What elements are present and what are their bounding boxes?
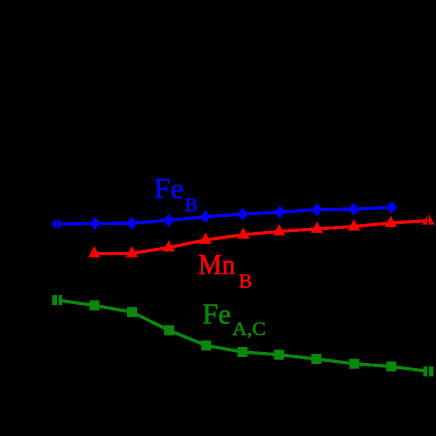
marker Fe_A,C square 2 [90,300,100,310]
marker Fe_B diamond 2 [90,217,101,230]
marker Fe_B diamond 3 [126,217,137,230]
marker Fe_B diamond 7 [274,206,285,219]
error bar Mn_B point 10 (black) [427,212,429,225]
svg-text:B: B [239,271,252,293]
marker Fe_A,C square 3 [127,307,137,317]
marker Fe_A,C square 4 [164,325,174,335]
marker Fe_A,C square 6 [238,347,248,357]
svg-text:A,C: A,C [232,319,265,340]
svg-text:Mn: Mn [198,250,235,281]
marker Fe_A,C square 9 [349,359,359,369]
error bar Fe_A,C point 1 (black) [57,295,59,307]
error bar Fe_B point 1 (black) [56,217,57,230]
svg-text:B: B [185,195,198,216]
error bar Fe_A,C point 11 (black) [427,366,429,378]
marker Fe_B diamond 10 [386,201,397,214]
marker Fe_B diamond 8 [312,203,323,216]
marker Fe_A,C square 7 [274,350,284,360]
marker Fe_A,C square 11 [423,366,433,376]
marker Mn_B triangle 9 [385,216,397,227]
series Fe_B line (blue) [57,207,392,224]
svg-text:Fe: Fe [202,300,231,331]
marker Fe_B diamond 1 [52,218,63,231]
marker Fe_A,C square 10 [386,362,396,372]
marker Mn_B triangle 8 [348,219,360,230]
marker Mn_B triangle 10 [422,213,434,224]
series Fe_A,C line (green) [57,300,428,371]
marker Fe_B diamond 4 [163,214,174,227]
marker Mn_B triangle 4 [199,233,211,244]
marker Fe_A,C square 5 [201,341,211,351]
marker Mn_B triangle 1 [88,246,100,257]
svg-text:Fe: Fe [154,174,184,205]
marker Fe_B diamond 9 [348,203,359,216]
marker Fe_A,C square 1 [52,295,62,305]
series Mn_B line (red) [94,221,428,254]
marker Fe_B diamond 6 [237,208,248,221]
marker Mn_B triangle 7 [311,222,323,233]
marker Mn_B triangle 5 [237,228,249,239]
marker Mn_B triangle 3 [163,240,175,251]
marker Fe_A,C square 8 [311,354,321,364]
marker Fe_B diamond 5 [200,210,211,223]
marker Mn_B triangle 6 [273,224,285,235]
marker Mn_B triangle 2 [126,246,138,257]
